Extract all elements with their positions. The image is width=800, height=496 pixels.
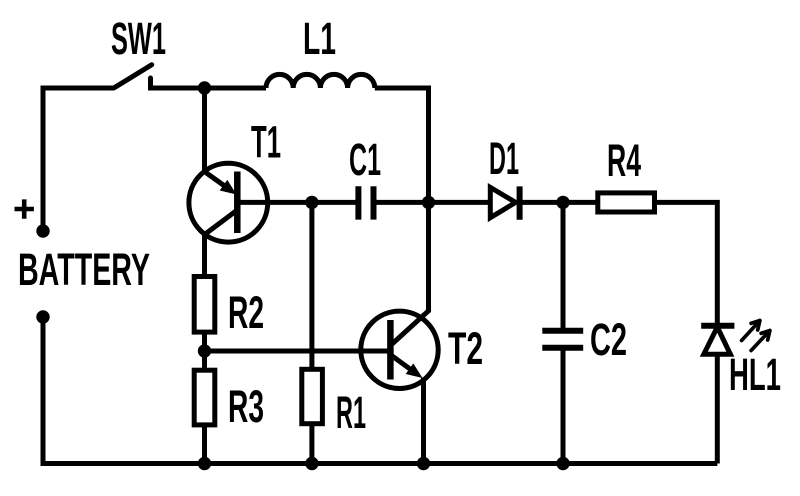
wire node B to C1 xyxy=(312,200,359,205)
led HL1 emission arrow 1 xyxy=(742,321,760,341)
wire R1 to bottom rail xyxy=(309,424,314,464)
wire HL1 to bottom rail xyxy=(715,354,720,463)
transistor T2 emitter diagonal xyxy=(392,356,417,374)
battery plus sign xyxy=(15,199,34,218)
wire node D to D1 xyxy=(429,200,491,205)
svg-text:BATTERY: BATTERY xyxy=(18,244,150,295)
node E junction dot xyxy=(556,196,569,209)
wire node A to L1 xyxy=(205,86,267,91)
transistor T2 circle xyxy=(361,311,438,388)
svg-text:T2: T2 xyxy=(448,323,483,374)
battery positive terminal dot xyxy=(36,224,49,237)
transistor T2 emitter arrow xyxy=(406,363,423,378)
resistor R4 body xyxy=(598,193,655,212)
transistor T1 collector diagonal xyxy=(205,211,237,235)
bottom rail junction dot C2 xyxy=(556,457,569,470)
wire R3 to bottom rail xyxy=(202,425,207,464)
svg-text:C1: C1 xyxy=(349,134,381,185)
switch SW1 blade xyxy=(114,65,152,88)
capacitor C1 right plate xyxy=(371,186,377,219)
battery negative terminal dot xyxy=(36,310,49,323)
diode D1 triangle xyxy=(490,187,515,217)
transistor T2 collector wire from node D xyxy=(392,202,429,344)
bottom rail junction dot R3 xyxy=(198,457,211,470)
transistor T1 emitter diagonal xyxy=(205,172,230,190)
svg-text:R3: R3 xyxy=(228,381,264,432)
transistor T1 emitter arrow xyxy=(220,180,237,195)
inductor L1 xyxy=(266,74,375,88)
switch SW1 right contact xyxy=(151,78,205,88)
node C junction dot xyxy=(198,344,211,357)
node B junction dot xyxy=(305,196,318,209)
capacitor C2 bottom plate xyxy=(542,345,583,351)
transistor T2 base bar xyxy=(387,320,394,380)
svg-text:R4: R4 xyxy=(607,135,641,186)
svg-text:L1: L1 xyxy=(303,13,336,64)
wire node A down to T1 emitter xyxy=(202,88,207,172)
wire L1 to C1 node corner xyxy=(375,88,429,202)
transistor T1 base bar xyxy=(234,172,241,234)
wire T1 base to node B xyxy=(237,200,312,205)
resistor R1 body xyxy=(302,369,323,423)
wire D1 to node E xyxy=(520,200,563,205)
transistor T1 circle xyxy=(189,163,268,242)
led HL1 cathode bar xyxy=(701,323,734,329)
node A junction dot xyxy=(198,81,211,94)
svg-text:R2: R2 xyxy=(228,287,264,338)
wire node B down to R1 xyxy=(309,202,314,369)
node D junction dot xyxy=(422,196,435,209)
wire node E to R4 xyxy=(563,200,598,205)
svg-text:C2: C2 xyxy=(590,314,627,365)
wire T1 collector to R2 xyxy=(202,234,207,276)
svg-text:T1: T1 xyxy=(251,117,281,168)
battery positive lead wire xyxy=(43,88,115,231)
led HL1 triangle xyxy=(704,327,731,354)
battery negative lead wire and bottom rail xyxy=(43,317,717,464)
wire T2 emitter to bottom rail xyxy=(421,378,426,464)
wire C1 to node D xyxy=(374,200,429,205)
capacitor C1 left plate xyxy=(355,186,361,219)
wire C2 to bottom rail xyxy=(561,348,566,464)
svg-text:R1: R1 xyxy=(336,387,366,438)
wire R2 to node C xyxy=(202,332,207,370)
svg-text:HL1: HL1 xyxy=(729,349,781,400)
svg-text:SW1: SW1 xyxy=(111,13,166,64)
diode D1 cathode bar xyxy=(517,186,523,219)
capacitor C2 top plate xyxy=(542,328,583,334)
wire node C horizontal to T2 base xyxy=(205,349,389,354)
svg-text:D1: D1 xyxy=(489,133,519,184)
wire node E down to C2 xyxy=(561,202,566,330)
resistor R3 body xyxy=(194,370,215,425)
wire R4 to right rail corner xyxy=(655,202,718,325)
bottom rail junction dot T2 emitter xyxy=(417,457,430,470)
resistor R2 body xyxy=(194,277,215,333)
led HL1 emission arrow 2 xyxy=(751,331,770,351)
bottom rail junction dot R1 xyxy=(305,457,318,470)
